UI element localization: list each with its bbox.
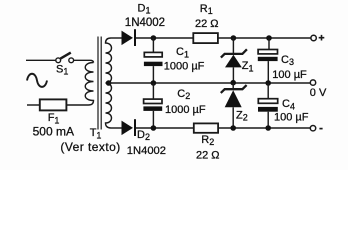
wire <box>26 59 56 61</box>
node Z2 bottom <box>230 125 236 131</box>
terminal + <box>311 35 324 41</box>
zener Z1 <box>221 38 254 83</box>
transformer T1 secondary winding bottom <box>106 83 112 128</box>
node C4 bottom <box>265 125 271 131</box>
wire middle rail <box>109 82 311 84</box>
terminal 0V <box>310 80 327 99</box>
node center tap <box>106 80 112 86</box>
node C3-C4 <box>265 80 271 86</box>
fuse F1 <box>27 99 89 138</box>
transformer T1 labels <box>60 127 120 154</box>
node D1-C1 <box>151 35 157 41</box>
node C3 top <box>266 35 272 41</box>
wire bottom rail left <box>136 127 194 129</box>
node Z1-Z2 <box>230 80 236 86</box>
svg-text:22 Ω: 22 Ω <box>195 18 219 30</box>
svg-text:1N4002: 1N4002 <box>127 145 166 157</box>
diode D1 <box>111 3 165 47</box>
transformer T1 core <box>98 37 101 130</box>
transformer T1 primary winding <box>85 63 93 106</box>
transformer T1 secondary winding top <box>106 38 112 83</box>
svg-text:22 Ω: 22 Ω <box>196 149 220 161</box>
svg-text:1000 µF: 1000 µF <box>164 60 205 72</box>
capacitor C2 <box>143 83 205 128</box>
wire top rail left <box>136 37 193 39</box>
svg-text:0 V: 0 V <box>310 87 327 99</box>
resistor R1 <box>193 3 218 43</box>
switch S1 <box>56 53 74 77</box>
svg-text:(Ver texto): (Ver texto) <box>60 140 120 154</box>
node C1-C2 <box>151 80 157 86</box>
capacitor C3 <box>258 38 307 83</box>
svg-text:100 µF: 100 µF <box>272 69 307 81</box>
capacitor C4 <box>258 83 309 128</box>
diode D2 <box>111 119 166 157</box>
wire bottom rail right <box>218 127 310 129</box>
terminal - <box>310 126 322 131</box>
svg-text:100 µF: 100 µF <box>274 112 309 124</box>
resistor R2 <box>194 123 220 161</box>
capacitor C1 <box>144 38 205 83</box>
zener Z2 <box>221 83 248 128</box>
svg-text:500 mA: 500 mA <box>33 125 74 139</box>
node R1-Z1 <box>231 35 237 41</box>
wire <box>74 60 94 62</box>
AC source <box>27 74 47 87</box>
node D2-C2 <box>151 125 157 131</box>
svg-text:1000 µF: 1000 µF <box>165 104 206 116</box>
wire top rail right <box>218 37 311 39</box>
svg-text:1N4002: 1N4002 <box>125 17 165 29</box>
